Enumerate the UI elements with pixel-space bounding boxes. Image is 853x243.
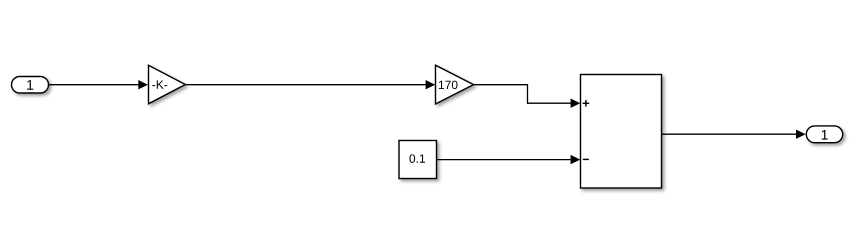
constant block 0.1	[399, 141, 437, 179]
gain block 170	[436, 65, 474, 104]
constant value label 0.1	[409, 154, 425, 163]
gain value label 170	[439, 81, 458, 90]
outport label 1	[822, 130, 828, 140]
sum plus port label	[583, 100, 590, 107]
gain block -K-	[149, 65, 186, 104]
sum minus port label	[583, 158, 589, 160]
wire from In1 to gain -K-	[49, 80, 148, 89]
inport block In1	[12, 77, 49, 94]
gain value label -K-	[152, 81, 167, 89]
sum (subtract) block	[581, 75, 662, 189]
outport block Out1	[806, 126, 842, 143]
wire from gain -K- to gain 170	[185, 80, 435, 89]
wire from sum to outport Out1	[662, 130, 806, 139]
wire from gain 170 to sum + input	[474, 85, 581, 108]
inport label 1	[27, 80, 33, 90]
wire from constant 0.1 to sum - input	[437, 155, 581, 164]
